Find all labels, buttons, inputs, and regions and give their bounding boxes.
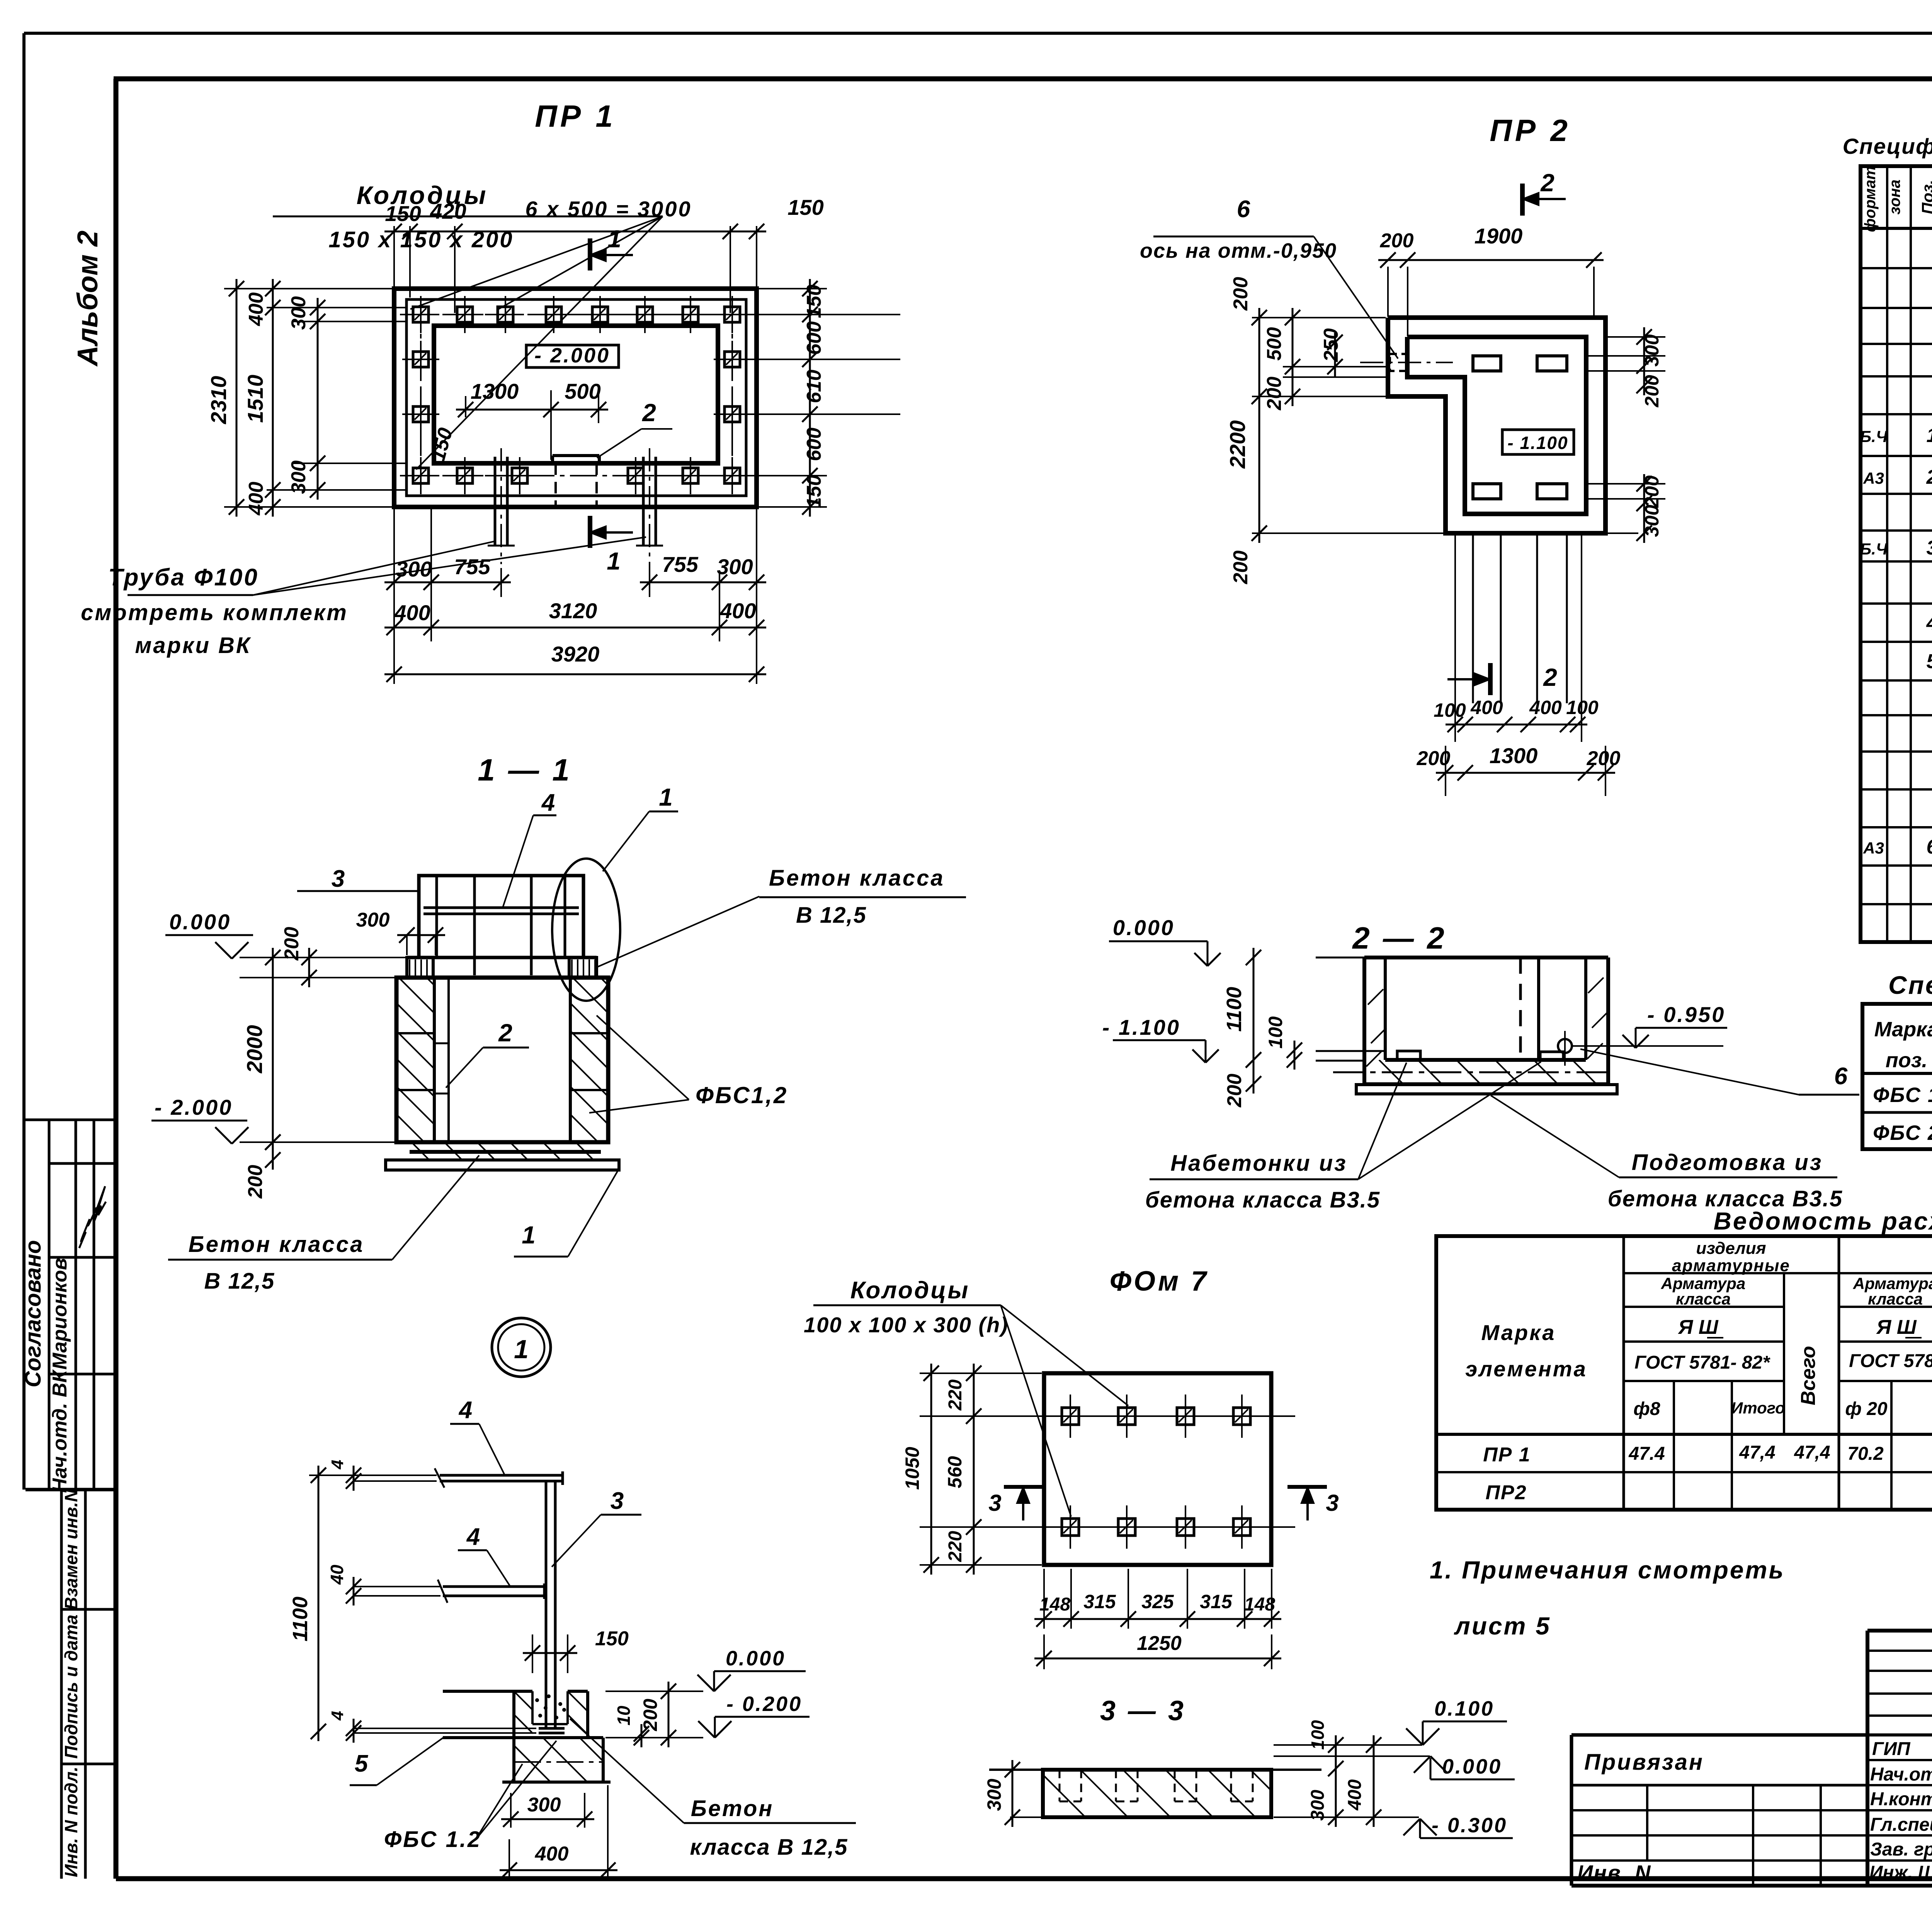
fom7 dims left [920, 1372, 1042, 1374]
svg-text:200: 200 [1417, 747, 1451, 770]
svg-text:- 0.200: - 0.200 [726, 1692, 802, 1716]
svg-text:400: 400 [1345, 1779, 1365, 1811]
svg-text:ф 20: ф 20 [1845, 1399, 1888, 1419]
svg-text:1100: 1100 [289, 1597, 312, 1641]
svg-text:2: 2 [1926, 466, 1932, 488]
svg-text:4: 4 [541, 789, 555, 816]
svg-text:6: 6 [1237, 196, 1250, 223]
svg-text:300: 300 [287, 296, 310, 330]
svg-text:200: 200 [1230, 551, 1252, 585]
svg-text:400: 400 [1529, 697, 1562, 718]
svg-text:300: 300 [287, 461, 310, 494]
svg-text:класса В 12,5: класса В 12,5 [690, 1835, 848, 1860]
svg-text:2200: 2200 [1225, 420, 1250, 469]
svg-text:47.4: 47.4 [1628, 1444, 1665, 1464]
svg-text:500: 500 [565, 379, 600, 403]
PR1 pit inner [434, 326, 718, 463]
svg-text:500: 500 [1263, 327, 1286, 361]
svg-text:200: 200 [1641, 375, 1663, 408]
svg-text:4: 4 [466, 1524, 480, 1550]
svg-text:200: 200 [1641, 475, 1663, 508]
svg-text:Марионков: Марионков [49, 1258, 71, 1369]
svg-text:220: 220 [945, 1379, 966, 1411]
svg-text:Марка: Марка [1481, 1320, 1556, 1345]
svg-text:1. Примечания смотреть: 1. Примечания смотреть [1430, 1556, 1785, 1584]
svg-text:Бетон класса: Бетон класса [769, 866, 945, 891]
svg-text:400: 400 [1470, 697, 1503, 718]
svg-text:200: 200 [281, 927, 303, 961]
svg-text:200: 200 [1380, 230, 1414, 252]
svg-text:ФБС 1: ФБС 1 [1873, 1083, 1932, 1107]
svg-text:250: 250 [1320, 328, 1342, 362]
svg-text:Бетон класса: Бетон класса [189, 1232, 364, 1257]
svg-text:560: 560 [944, 1456, 966, 1488]
svg-text:5: 5 [355, 1750, 369, 1777]
pocket stipple [536, 1699, 538, 1701]
PR1 dim 1300 500 [465, 396, 466, 417]
svg-text:1100: 1100 [1223, 987, 1246, 1032]
svg-text:Инв. N подл.: Инв. N подл. [61, 1767, 81, 1877]
svg-text:- 0.950: - 0.950 [1647, 1002, 1725, 1027]
svg-text:150: 150 [385, 201, 421, 226]
svg-text:100 х 100 х 300 (h): 100 х 100 х 300 (h) [804, 1313, 1009, 1337]
svg-text:Набетонки из: Набетонки из [1170, 1151, 1347, 1176]
fom7 plan rect [1044, 1373, 1271, 1565]
PR1 bottom dims [393, 509, 395, 684]
spec table 1 grid [1861, 166, 1932, 942]
svg-text:ГОСТ 5781- 82*: ГОСТ 5781- 82* [1634, 1352, 1770, 1373]
svg-text:ПР 1: ПР 1 [535, 99, 616, 133]
svg-text:200: 200 [1223, 1074, 1246, 1108]
svg-text:2: 2 [1543, 663, 1557, 691]
svg-text:5: 5 [1927, 650, 1932, 673]
detail FBS block [512, 1738, 515, 1782]
svg-text:420: 420 [430, 199, 466, 223]
PR1 pit outer wall [394, 289, 757, 507]
PR2 bottom dims [1446, 724, 1587, 726]
svg-text:- 2.000: - 2.000 [534, 344, 610, 367]
PR1 right dims [759, 288, 827, 289]
leaders to squares [410, 216, 663, 309]
PR2 bottom pipe lines [1472, 535, 1474, 703]
stamp table sograsovano [26, 1119, 116, 1121]
svg-text:ф8: ф8 [1633, 1399, 1660, 1419]
svg-text:0.000: 0.000 [1113, 915, 1175, 940]
svg-text:6: 6 [1927, 836, 1932, 858]
kolodets squares top row [413, 307, 429, 322]
svg-text:Инж. Шк: Инж. Шк [1869, 1862, 1932, 1883]
svg-text:В 12,5: В 12,5 [796, 903, 867, 928]
svg-text:1510: 1510 [243, 375, 267, 423]
PR2 inner wall line [1407, 337, 1586, 514]
1-1 dims [272, 948, 274, 1152]
svg-text:Я Ш: Я Ш [1876, 1316, 1917, 1338]
svg-text:ФБС1,2: ФБС1,2 [696, 1082, 788, 1108]
svg-text:4: 4 [328, 1711, 347, 1721]
svg-text:1: 1 [607, 547, 621, 575]
2-2 base plate [1356, 1085, 1617, 1094]
PR2 left dims [1252, 317, 1386, 318]
svg-text:Бетон: Бетон [691, 1796, 774, 1821]
svg-text:лист 5: лист 5 [1454, 1612, 1551, 1640]
svg-text:Зав. гр.: Зав. гр. [1870, 1839, 1932, 1860]
svg-text:0.000: 0.000 [169, 910, 231, 934]
small grid [1867, 1650, 1932, 1652]
svg-text:755: 755 [454, 554, 490, 579]
svg-text:300: 300 [396, 557, 432, 581]
svg-text:Подпись и дата: Подпись и дата [61, 1615, 81, 1759]
2-2 levels [1316, 957, 1364, 959]
svg-text:Колодцы: Колодцы [850, 1277, 970, 1304]
svg-text:3920: 3920 [551, 642, 600, 666]
PR1 wall inner line [406, 299, 746, 496]
svg-text:220: 220 [945, 1531, 966, 1562]
PR2 outer wall L-shape [1388, 318, 1605, 533]
svg-text:ФБС 1.2: ФБС 1.2 [384, 1827, 481, 1852]
PR2 section flag 2 top [1520, 184, 1525, 216]
detail 150 dim [532, 1634, 533, 1673]
svg-text:300: 300 [356, 909, 390, 931]
svg-text:100: 100 [1566, 697, 1599, 718]
svg-text:400: 400 [535, 1843, 569, 1865]
svg-text:элемента: элемента [1465, 1357, 1587, 1381]
svg-text:Н.контр.: Н.контр. [1870, 1789, 1932, 1810]
fom7 squares [1062, 1408, 1079, 1425]
svg-text:10: 10 [614, 1706, 634, 1726]
svg-text:300: 300 [717, 554, 753, 579]
svg-text:70.2: 70.2 [1847, 1444, 1884, 1464]
detail pit floor [443, 1690, 532, 1693]
kolodets squares bottom row [457, 468, 473, 483]
2-2 wall hatch ticks [1368, 989, 1383, 1005]
staff rows [1867, 1759, 1932, 1761]
svg-text:600: 600 [803, 428, 825, 461]
sheet outer border [24, 32, 1932, 35]
svg-text:1900: 1900 [1475, 224, 1523, 248]
svg-text:ПР 1: ПР 1 [1483, 1444, 1531, 1466]
svg-text:0.000: 0.000 [726, 1647, 786, 1670]
svg-text:Альбом 2: Альбом 2 [71, 231, 104, 367]
svg-text:- 1.100: - 1.100 [1102, 1015, 1180, 1039]
svg-text:Спецификация сборных элемен: Спецификация сборных элементов приямка П… [1888, 971, 1932, 999]
svg-text:200: 200 [1587, 747, 1621, 770]
svg-text:класса: класса [1868, 1290, 1923, 1308]
svg-text:400: 400 [245, 482, 267, 516]
fom7 dims bottom [1043, 1569, 1045, 1629]
PR1 bottom step [551, 456, 554, 463]
svg-text:Привязан: Привязан [1584, 1750, 1704, 1775]
3-3 ground lines [989, 1769, 1043, 1771]
svg-text:3: 3 [1927, 537, 1932, 559]
svg-text:148: 148 [1244, 1594, 1275, 1615]
svg-text:4: 4 [458, 1397, 472, 1423]
2-2 dims [1253, 948, 1255, 1070]
drawing frame [114, 77, 1932, 82]
svg-text:марки ВК: марки ВК [135, 633, 251, 658]
svg-text:2310: 2310 [206, 376, 231, 425]
svg-text:150: 150 [787, 195, 823, 219]
svg-text:1: 1 [1927, 424, 1932, 447]
svg-text:2 — 2: 2 — 2 [1352, 921, 1446, 955]
detail shelf pos4 [443, 1585, 544, 1588]
1-1 floor slab [396, 1141, 608, 1144]
svg-text:148: 148 [1039, 1594, 1070, 1615]
svg-text:арматурные: арматурные [1672, 1256, 1790, 1275]
svg-text:Всего: Всего [1797, 1346, 1820, 1405]
svg-text:Нач.отд.: Нач.отд. [1870, 1764, 1932, 1785]
PR2 salnik dashed [1390, 354, 1407, 371]
svg-text:400: 400 [394, 600, 430, 625]
1-1 top box frame pos3/4 [419, 876, 583, 957]
svg-text:610: 610 [803, 370, 825, 403]
detail dims bottom [510, 1793, 512, 1828]
svg-text:1250: 1250 [1137, 1632, 1182, 1655]
svg-text:100: 100 [1434, 699, 1466, 721]
svg-text:300: 300 [983, 1779, 1005, 1811]
svg-text:300: 300 [1641, 334, 1663, 367]
svg-text:3: 3 [332, 866, 345, 892]
svg-text:1300: 1300 [1490, 743, 1538, 768]
svg-text:изделия: изделия [1696, 1239, 1766, 1258]
svg-text:2: 2 [498, 1019, 512, 1047]
detail dims left [318, 1466, 320, 1741]
svg-text:2000: 2000 [242, 1025, 267, 1074]
svg-text:ГОСТ 5781- 82*: ГОСТ 5781- 82* [1849, 1351, 1932, 1371]
svg-text:300: 300 [527, 1794, 561, 1816]
svg-text:300: 300 [1308, 1790, 1328, 1821]
svg-text:Ведомость расхода стали: Ведомость расхода стали на элемент, кг [1714, 1207, 1932, 1235]
svg-text:смотреть комплект: смотреть комплект [81, 600, 348, 625]
svg-text:- 1.100: - 1.100 [1507, 433, 1568, 453]
svg-text:ПР2: ПР2 [1485, 1481, 1527, 1504]
svg-text:В 12,5: В 12,5 [204, 1269, 275, 1294]
svg-text:ФОм 7: ФОм 7 [1110, 1266, 1209, 1297]
svg-text:Труба Ф100: Труба Ф100 [108, 564, 259, 591]
detail dims right [641, 1724, 643, 1747]
svg-text:300: 300 [1641, 505, 1663, 537]
2-2 salnik circle [1558, 1039, 1572, 1053]
svg-text:Поз.: Поз. [1918, 180, 1932, 214]
svg-text:Согласовано: Согласовано [20, 1240, 46, 1387]
svg-text:100: 100 [1265, 1016, 1286, 1049]
detail pocket [531, 1691, 534, 1724]
svg-text:ПР 2: ПР 2 [1490, 113, 1571, 148]
svg-text:- 2.000: - 2.000 [155, 1095, 233, 1119]
svg-text:400: 400 [245, 293, 267, 327]
svg-text:3: 3 [611, 1488, 624, 1514]
title block outer [1867, 1629, 1932, 1633]
svg-text:1: 1 [659, 783, 673, 811]
svg-text:А3: А3 [1863, 469, 1884, 487]
svg-text:200: 200 [639, 1699, 661, 1731]
signature squiggle [79, 1186, 106, 1248]
1-1 base plate [386, 1160, 619, 1170]
detail top plate pos4 [440, 1474, 563, 1477]
3-3 dims right [1274, 1744, 1422, 1746]
stamp table inv [60, 1490, 63, 1879]
svg-text:0.000: 0.000 [1442, 1755, 1502, 1778]
3-3 dims left [1012, 1760, 1014, 1827]
svg-text:200: 200 [1230, 277, 1252, 311]
2-2 tank walls [1364, 956, 1608, 959]
svg-text:400: 400 [719, 599, 756, 623]
svg-text:1300: 1300 [471, 379, 519, 403]
PR2 right dims [1588, 355, 1665, 357]
detail post pos3 [545, 1481, 548, 1728]
svg-text:Гл.спец.: Гл.спец. [1870, 1815, 1932, 1835]
svg-text:0.100: 0.100 [1434, 1697, 1494, 1720]
pipe trub right [642, 457, 645, 546]
svg-text:- 0.300: - 0.300 [1432, 1814, 1507, 1837]
3-3 slab [1043, 1770, 1271, 1817]
svg-text:600: 600 [803, 321, 825, 355]
svg-text:755: 755 [662, 552, 698, 577]
svg-text:Б.Ч: Б.Ч [1860, 540, 1888, 558]
svg-text:А3: А3 [1863, 839, 1884, 857]
svg-text:ФБС 2: ФБС 2 [1873, 1121, 1932, 1145]
PR1 level box -2.000 [526, 345, 619, 367]
svg-text:1 — 1: 1 — 1 [478, 753, 571, 787]
svg-text:47,4: 47,4 [1794, 1442, 1830, 1463]
svg-text:Взамен инв.N: Взамен инв.N [61, 1489, 81, 1610]
svg-text:100: 100 [1308, 1720, 1328, 1750]
svg-text:ось на отм.-0,950: ось на отм.-0,950 [1140, 239, 1337, 262]
svg-text:1050: 1050 [901, 1447, 923, 1490]
svg-text:315: 315 [1083, 1591, 1116, 1612]
PR1 section flag 1 top [588, 238, 592, 270]
1-1 pit walls [396, 978, 608, 1142]
svg-text:3 — 3: 3 — 3 [1100, 1696, 1186, 1726]
PR2 openings [1473, 356, 1501, 371]
svg-text:3: 3 [988, 1490, 1001, 1516]
privyazan table [1571, 1733, 1867, 1737]
svg-text:Нач.отд. ВК: Нач.отд. ВК [49, 1369, 71, 1493]
svg-text:Б.Ч: Б.Ч [1860, 427, 1888, 446]
fom7 section flags 3 [1004, 1485, 1043, 1489]
1-1 flange curb row [407, 956, 597, 959]
svg-text:150: 150 [595, 1628, 629, 1650]
svg-text:200: 200 [244, 1165, 267, 1199]
pipe trub left [494, 457, 497, 546]
PR2 level box -1.100 [1502, 430, 1574, 454]
svg-text:4: 4 [328, 1460, 347, 1469]
PR2 section flag 2 bottom [1488, 663, 1493, 695]
svg-text:200: 200 [1263, 377, 1286, 411]
svg-text:3120: 3120 [549, 599, 597, 623]
svg-text:Инв. N: Инв. N [1577, 1861, 1651, 1885]
svg-text:1: 1 [522, 1221, 536, 1249]
svg-text:6 х 500 = 3000: 6 х 500 = 3000 [525, 197, 692, 221]
svg-text:Подготовка из: Подготовка из [1632, 1150, 1823, 1175]
svg-text:Колодцы: Колодцы [357, 181, 488, 209]
svg-text:поз.: поз. [1886, 1049, 1928, 1072]
1-1 levels [240, 957, 406, 958]
PR2 top dims [1387, 267, 1389, 317]
svg-text:150: 150 [803, 285, 825, 318]
svg-text:2: 2 [1540, 169, 1554, 197]
spec table 2 grid [1862, 1004, 1932, 1149]
row centerlines [400, 314, 752, 315]
svg-text:315: 315 [1200, 1591, 1233, 1612]
svg-text:4: 4 [1926, 612, 1932, 634]
svg-text:40: 40 [327, 1565, 347, 1585]
steel table grid [1436, 1236, 1932, 1510]
detail base slab [443, 1736, 603, 1739]
svg-text:ГИП: ГИП [1872, 1739, 1911, 1759]
svg-text:47,4: 47,4 [1739, 1442, 1775, 1463]
2-2 floor [1385, 1058, 1586, 1062]
3-3 pockets dashed [1059, 1770, 1061, 1801]
2-2 nabetonka blocks [1397, 1051, 1420, 1060]
svg-text:Итого: Итого [1731, 1399, 1785, 1417]
svg-text:6: 6 [1834, 1063, 1848, 1090]
PR1 section flag 1 bottom [588, 516, 592, 548]
svg-text:формат: формат [1862, 166, 1879, 232]
kolodets squares right col [724, 352, 740, 367]
svg-text:150: 150 [803, 475, 825, 509]
svg-text:Марка: Марка [1874, 1018, 1932, 1041]
svg-text:1: 1 [607, 225, 621, 253]
svg-text:325: 325 [1141, 1591, 1174, 1612]
PR1 left dims [224, 288, 392, 289]
PR1 top dims [393, 226, 395, 288]
svg-text:зона: зона [1886, 180, 1903, 215]
kolodets squares left col [413, 352, 429, 367]
svg-text:3: 3 [1326, 1490, 1338, 1516]
1-1 wall joints [396, 1032, 434, 1034]
svg-text:бетона класса В3.5: бетона класса В3.5 [1145, 1187, 1380, 1213]
detail circle 1 [492, 1318, 551, 1377]
svg-text:класса: класса [1676, 1290, 1731, 1308]
svg-text:2: 2 [642, 399, 656, 427]
1-1 detail ellipse [552, 859, 620, 1001]
svg-text:Я Ш: Я Ш [1677, 1316, 1718, 1338]
svg-text:1: 1 [514, 1335, 529, 1364]
svg-text:Спецификация фундамента под: Спецификация фундамента под оборудование… [1843, 134, 1932, 159]
